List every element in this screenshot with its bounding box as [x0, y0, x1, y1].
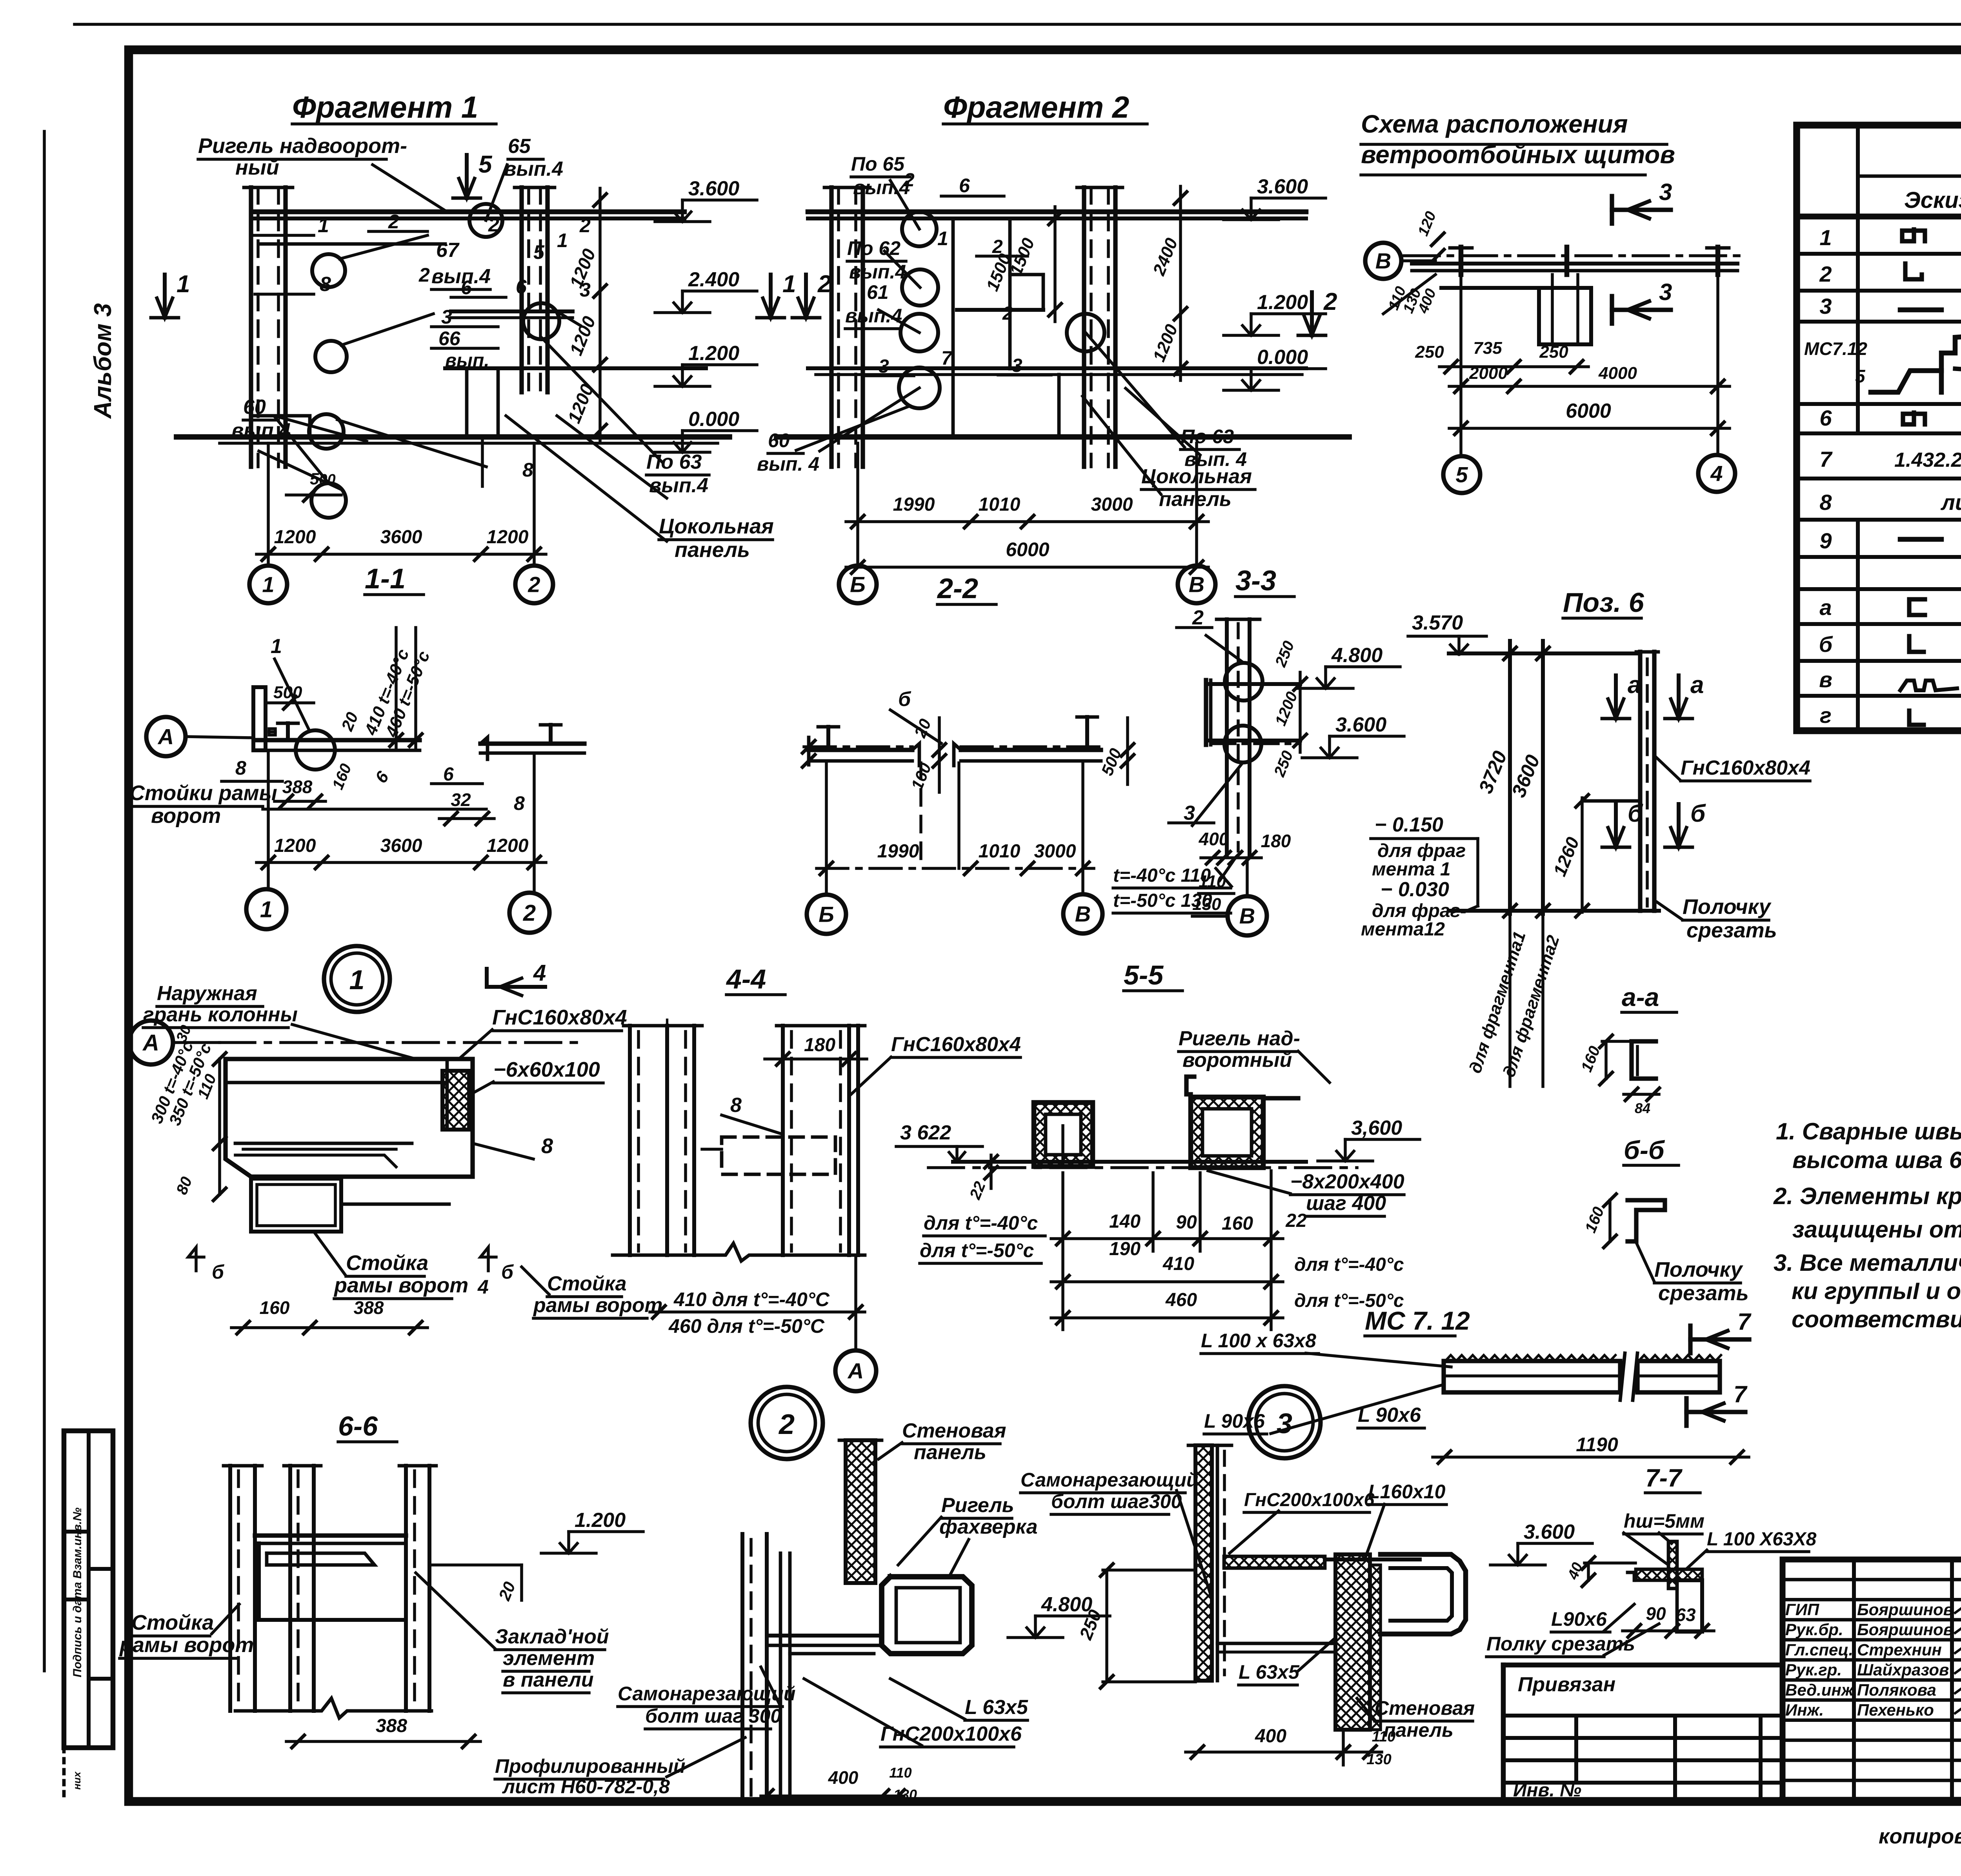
svg-text:Б: Б — [850, 572, 866, 597]
section 2-2 right upstand — [1085, 717, 1089, 750]
fragment 1 panel below — [467, 368, 498, 437]
svg-text:4-4: 4-4 — [726, 964, 766, 994]
svg-text:болт шаг300: болт шаг300 — [1051, 1490, 1182, 1512]
svg-text:Фрагмент 2: Фрагмент 2 — [943, 90, 1129, 124]
svg-text:а: а — [1628, 671, 1641, 699]
svg-text:3.600: 3.600 — [688, 177, 739, 200]
unit 2 horizontal members — [767, 1634, 882, 1638]
svg-text:7: 7 — [941, 347, 953, 369]
svg-text:3: 3 — [1012, 355, 1022, 376]
svg-text:4: 4 — [1710, 461, 1723, 486]
fragment 2 inner post — [951, 218, 955, 437]
svg-text:2.400: 2.400 — [688, 268, 739, 291]
section 4-4 dashed plate — [722, 1137, 835, 1174]
svg-text:1.200: 1.200 — [1257, 291, 1308, 314]
svg-text:Шайхразов: Шайхразов — [1857, 1661, 1949, 1679]
svg-text:1010: 1010 — [979, 494, 1021, 515]
svg-text:3: 3 — [879, 356, 889, 377]
svg-text:для фраг-: для фраг- — [1372, 901, 1466, 921]
scheme section arrows 3 — [1610, 196, 1614, 224]
svg-text:вып. 4: вып. 4 — [757, 453, 819, 475]
fragment 1 grid axis 2 — [533, 443, 536, 566]
fragment 1 callout circles — [312, 254, 345, 287]
fragment 1 right column — [519, 187, 524, 392]
section 6-6 left column — [228, 1466, 232, 1711]
svg-text:МС7.12: МС7.12 — [1804, 338, 1867, 359]
pos.6 dim 1260 — [1581, 798, 1584, 912]
pos.6 channel bar — [1638, 652, 1642, 911]
svg-text:60: 60 — [768, 429, 790, 451]
svg-text:2000: 2000 — [1469, 364, 1508, 383]
svg-text:5: 5 — [1455, 462, 1468, 487]
svg-text:−8х200х400: −8х200х400 — [1290, 1170, 1404, 1193]
svg-text:500: 500 — [310, 469, 336, 488]
scheme dim 250-735-250 — [1439, 365, 1588, 368]
fragment 1 top mid labels — [465, 155, 469, 198]
svg-text:1: 1 — [176, 271, 190, 298]
svg-text:1: 1 — [271, 635, 282, 658]
svg-text:388: 388 — [354, 1297, 384, 1318]
left margin stamp boxes — [64, 1431, 113, 1748]
svg-text:МС 7. 12: МС 7. 12 — [1365, 1306, 1470, 1335]
svg-text:1200: 1200 — [274, 835, 316, 856]
svg-text:в панели: в панели — [503, 1669, 594, 1691]
svg-text:3: 3 — [1659, 279, 1672, 305]
svg-text:8: 8 — [235, 757, 246, 779]
svg-text:Подпись и дата Взам.инв.№: Подпись и дата Взам.инв.№ — [71, 1508, 84, 1678]
fragment 2 right dim chain — [1179, 186, 1182, 380]
svg-text:рамы ворот: рамы ворот — [333, 1274, 468, 1297]
svg-text:60: 60 — [243, 396, 266, 419]
svg-text:400: 400 — [1199, 829, 1229, 849]
svg-text:лист 15 МС 7.12: лист 15 МС 7.12 — [1940, 490, 1961, 515]
svg-text:500: 500 — [273, 683, 302, 702]
svg-text:Полочку: Полочку — [1654, 1258, 1744, 1281]
svg-text:L160х10: L160х10 — [1368, 1481, 1446, 1503]
svg-text:1990: 1990 — [893, 494, 935, 515]
svg-text:90: 90 — [1646, 1603, 1666, 1624]
scheme dim 6000 — [1449, 427, 1730, 430]
sheet edge left — [43, 131, 46, 1671]
svg-text:1200: 1200 — [487, 835, 529, 856]
svg-text:65: 65 — [508, 135, 531, 158]
title block staff table outline — [1783, 1559, 1961, 1800]
svg-text:б-б: б-б — [1624, 1135, 1665, 1165]
svg-text:Стеновая: Стеновая — [902, 1419, 1006, 1442]
element list table horizontal lines — [1858, 175, 1961, 178]
svg-text:б: б — [212, 1261, 225, 1283]
svg-text:1. Сварные швы выполнять элект: 1. Сварные швы выполнять электродами Э-4… — [1776, 1118, 1961, 1145]
svg-text:Полочку: Полочку — [1683, 895, 1772, 919]
svg-text:3-3: 3-3 — [1235, 565, 1276, 597]
unit 3 top flange — [1224, 1556, 1325, 1568]
svg-text:2: 2 — [817, 271, 831, 298]
svg-text:6: 6 — [516, 276, 527, 298]
section 1-1 beam lines — [257, 738, 420, 742]
fragment 2 bottom dims — [846, 520, 1208, 523]
svg-text:110: 110 — [1199, 872, 1226, 891]
svg-text:3600: 3600 — [380, 835, 422, 856]
svg-text:Гл.спец.: Гл.спец. — [1785, 1640, 1853, 1659]
unit 3 vertical dim 250 — [1105, 1570, 1108, 1682]
svg-text:Схема расположения: Схема расположения — [1361, 110, 1628, 138]
svg-text:Ригель: Ригель — [941, 1494, 1014, 1517]
svg-text:2. Элементы крепления профилир: 2. Элементы крепления профилированного н… — [1773, 1183, 1961, 1209]
svg-text:б: б — [501, 1261, 514, 1283]
svg-text:t=-40°с 110: t=-40°с 110 — [1113, 865, 1211, 886]
svg-text:Стойка: Стойка — [346, 1251, 428, 1275]
fragment 2 callout circles — [902, 212, 937, 246]
svg-text:рамы ворот: рамы ворот — [533, 1294, 663, 1317]
fragment 2 left column — [829, 187, 833, 467]
title block staff columns — [1852, 1559, 1856, 1800]
section 2-2 beam right part — [961, 748, 1101, 752]
section 4-4 grid circle A — [854, 1255, 857, 1349]
svg-text:срезать: срезать — [1658, 1281, 1749, 1305]
section 5-5 right hollow square — [1191, 1097, 1263, 1168]
section 7-7 vertical plate — [1668, 1541, 1677, 1589]
section 1-1 callout circle — [296, 730, 335, 770]
svg-text:мента 1: мента 1 — [1372, 859, 1451, 880]
svg-text:180: 180 — [804, 1035, 835, 1055]
svg-text:ГнС160х80х4: ГнС160х80х4 — [891, 1033, 1021, 1056]
svg-text:А: А — [847, 1359, 864, 1383]
svg-text:2: 2 — [388, 211, 399, 233]
svg-text:1.200: 1.200 — [575, 1509, 626, 1532]
svg-text:5: 5 — [1855, 366, 1866, 386]
section 7-7 leader hw — [1624, 1533, 1668, 1565]
unit 1 section b arrows — [188, 1247, 204, 1271]
svg-text:1: 1 — [318, 214, 329, 237]
svg-text:L 100 х 63х8: L 100 х 63х8 — [1201, 1330, 1316, 1352]
svg-text:высота шва 6 мм.: высота шва 6 мм. — [1792, 1147, 1961, 1173]
section 1-1 T column top — [286, 723, 290, 740]
fragment 2 mid beam 790 — [957, 308, 1043, 312]
svg-text:2: 2 — [1192, 606, 1204, 629]
svg-text:7: 7 — [1819, 447, 1833, 471]
scheme dim 2000-4000 — [1449, 385, 1730, 388]
svg-text:Стеновая: Стеновая — [1375, 1697, 1475, 1719]
svg-text:3: 3 — [1277, 1408, 1292, 1439]
svg-text:вып.4: вып.4 — [845, 305, 902, 327]
section 1-1 right piece — [480, 741, 584, 746]
svg-text:8: 8 — [514, 792, 525, 814]
section 2-2 beam left part — [804, 745, 912, 748]
fragment 2 section marks — [769, 275, 773, 318]
svg-text:2: 2 — [1323, 288, 1337, 315]
title block staff rows — [1783, 1578, 1961, 1581]
scheme column 5 — [1459, 247, 1464, 275]
fragment 2 leader lines — [890, 180, 919, 229]
svg-text:По 62: По 62 — [847, 237, 900, 259]
svg-text:6: 6 — [443, 764, 454, 785]
fragment 1 ground line — [176, 434, 729, 440]
svg-text:вып.: вып. — [445, 350, 489, 371]
fragment 2 grid axis V — [1195, 443, 1198, 566]
svg-text:7-7: 7-7 — [1645, 1464, 1683, 1492]
pos.6 bottom line — [1449, 909, 1659, 913]
section 4-4 center dashdot — [666, 1020, 668, 1259]
svg-text:лист Н60-782-0,8: лист Н60-782-0,8 — [502, 1776, 670, 1798]
svg-text:5: 5 — [478, 151, 493, 178]
fragment 1 beam 2.400 line — [451, 309, 573, 313]
pos.6 a-a cut arrows — [1614, 675, 1618, 719]
svg-text:вып.4: вып.4 — [853, 177, 910, 198]
svg-text:элемент: элемент — [503, 1647, 595, 1670]
svg-text:В: В — [1239, 904, 1255, 928]
fragment 2 top beam — [808, 209, 1306, 215]
unit 1 grid circle A — [129, 1021, 173, 1064]
svg-text:Привязан: Привязан — [1518, 1673, 1615, 1696]
section 3-3 callout circles — [1225, 663, 1262, 701]
svg-text:1: 1 — [557, 229, 568, 251]
svg-text:L 63х5: L 63х5 — [965, 1696, 1028, 1719]
scheme grid circle V — [1365, 243, 1401, 279]
svg-text:− 0.030: − 0.030 — [1381, 878, 1449, 901]
svg-text:3.600: 3.600 — [1524, 1521, 1575, 1543]
svg-text:Эскиз: Эскиз — [1904, 187, 1961, 213]
svg-text:735: 735 — [1473, 338, 1502, 358]
svg-text:Альбом 3: Альбом 3 — [89, 303, 116, 419]
svg-text:90: 90 — [1176, 1212, 1197, 1233]
unit 1 main beam outline — [226, 1059, 473, 1177]
section 1-1 left upstand plate — [253, 687, 266, 750]
svg-text:3600: 3600 — [380, 527, 422, 548]
svg-text:По 63: По 63 — [646, 451, 702, 473]
b-b angle shape — [1628, 1200, 1665, 1241]
svg-text:рамы ворот: рамы ворот — [119, 1633, 254, 1657]
svg-text:1200: 1200 — [487, 527, 529, 548]
scheme column mid — [1564, 247, 1570, 275]
MC7.12 break marks — [1620, 1353, 1625, 1400]
scheme grid circle 4 — [1716, 275, 1719, 454]
svg-text:Инв. №: Инв. № — [1513, 1780, 1581, 1801]
svg-text:3. Все металлические конструк: 3. Все металлические конструкции покрыть… — [1774, 1250, 1961, 1276]
svg-text:Пехенько: Пехенько — [1857, 1701, 1934, 1719]
svg-text:4: 4 — [533, 960, 546, 986]
svg-text:Полякова: Полякова — [1857, 1681, 1936, 1699]
svg-text:1190: 1190 — [1576, 1434, 1618, 1456]
svg-text:2-2: 2-2 — [937, 573, 978, 604]
svg-text:2: 2 — [904, 170, 915, 191]
svg-text:6000: 6000 — [1006, 539, 1049, 560]
section 3-3 left plate and angles — [1204, 680, 1208, 745]
unit 3 bottom member lines — [1217, 1642, 1335, 1645]
svg-text:а: а — [1819, 595, 1832, 620]
svg-text:5: 5 — [533, 241, 545, 263]
svg-text:Б: Б — [819, 902, 834, 927]
svg-text:вып.4: вып.4 — [231, 419, 291, 442]
fragment 1 leader lines — [340, 235, 427, 259]
svg-text:болт шаг 300: болт шаг 300 — [645, 1705, 781, 1727]
svg-text:3000: 3000 — [1091, 494, 1133, 515]
svg-text:шаг 400: шаг 400 — [1306, 1192, 1386, 1215]
element list table outer border — [1797, 125, 1961, 731]
fragment 1 grid axis 1 — [267, 443, 270, 566]
svg-text:а: а — [1690, 671, 1704, 699]
section 3-3 grid circle V — [1246, 858, 1249, 896]
svg-text:8: 8 — [522, 459, 533, 481]
svg-text:Наружная: Наружная — [157, 982, 257, 1005]
svg-text:Стрехнин: Стрехнин — [1857, 1640, 1942, 1659]
svg-text:9: 9 — [1819, 528, 1832, 553]
svg-text:250: 250 — [1539, 342, 1568, 362]
section 5-5 left hollow square — [1034, 1103, 1093, 1166]
svg-text:Стойка: Стойка — [131, 1611, 214, 1634]
a-a dim 84 below — [1624, 1093, 1659, 1096]
svg-text:1.432.2-17 вып. 5-2, МС10: 1.432.2-17 вып. 5-2, МС10 — [1894, 449, 1961, 471]
svg-text:По 65: По 65 — [851, 153, 905, 175]
svg-text:Поз. 6: Поз. 6 — [1563, 587, 1644, 618]
svg-text:160: 160 — [1222, 1213, 1253, 1234]
svg-text:б: б — [1628, 800, 1643, 827]
svg-text:6: 6 — [461, 277, 472, 298]
svg-text:в: в — [1819, 667, 1832, 692]
svg-text:3 622: 3 622 — [900, 1121, 951, 1144]
svg-text:6: 6 — [959, 175, 970, 197]
unit 1 axis dash line — [220, 1041, 580, 1044]
MC7.12 serration top — [1445, 1355, 1615, 1361]
svg-text:панель: панель — [914, 1441, 986, 1464]
section 4-4 left column — [628, 1026, 632, 1255]
pos.6 long verticals — [1508, 641, 1512, 914]
pos.6 b-b cut arrows — [1614, 804, 1618, 847]
svg-text:Цокольная: Цокольная — [659, 515, 774, 538]
section 7-7 outline box — [1628, 1572, 1634, 1580]
svg-text:б: б — [1819, 632, 1833, 657]
svg-text:3.600: 3.600 — [1257, 175, 1308, 198]
svg-text:6000: 6000 — [1566, 400, 1611, 422]
svg-text:L 63х5: L 63х5 — [1239, 1661, 1300, 1683]
svg-text:L90х6: L90х6 — [1551, 1608, 1607, 1630]
a-a channel shape — [1632, 1041, 1656, 1079]
fragment 1 top beam — [254, 209, 684, 215]
svg-text:8: 8 — [541, 1134, 553, 1158]
svg-text:7: 7 — [1734, 1381, 1748, 1407]
svg-text:Бояршинов: Бояршинов — [1857, 1620, 1953, 1639]
svg-text:8: 8 — [1819, 490, 1832, 515]
svg-text:7: 7 — [1737, 1308, 1752, 1335]
section 6-6 beam lines — [255, 1533, 406, 1538]
unit 3 big hatched tube rigel — [1381, 1554, 1466, 1634]
svg-text:5-5: 5-5 — [1124, 960, 1164, 990]
svg-text:г: г — [1820, 703, 1832, 728]
svg-text:б: б — [1690, 800, 1706, 827]
svg-text:Фрагмент 1: Фрагмент 1 — [292, 90, 478, 124]
svg-text:110: 110 — [1372, 1729, 1396, 1745]
svg-text:1010: 1010 — [979, 841, 1021, 862]
svg-text:Бояршинов: Бояршинов — [1857, 1600, 1953, 1619]
svg-text:0.000: 0.000 — [1257, 346, 1308, 369]
scheme beam chain line — [1404, 254, 1741, 257]
privyazan box — [1503, 1663, 1783, 1668]
svg-text:1200: 1200 — [274, 527, 316, 548]
svg-text:для t°=-40°с: для t°=-40°с — [1294, 1254, 1404, 1275]
svg-text:3000: 3000 — [1034, 841, 1076, 862]
fragment 1 level 1.200 line — [445, 366, 706, 370]
svg-text:388: 388 — [376, 1716, 407, 1736]
svg-text:Стойки рамы: Стойки рамы — [129, 781, 277, 805]
svg-text:ГнС160х80х4: ГнС160х80х4 — [492, 1006, 627, 1029]
svg-text:4.800: 4.800 — [1331, 644, 1383, 667]
svg-text:копировал Лиур: копировал Лиур — [1879, 1825, 1961, 1848]
svg-text:63: 63 — [1675, 1605, 1696, 1625]
scheme column 4 — [1715, 247, 1721, 275]
svg-text:2: 2 — [579, 215, 591, 237]
svg-text:130: 130 — [1192, 895, 1221, 914]
svg-text:срезать: срезать — [1686, 919, 1777, 942]
section 1-1 bottom dims — [256, 861, 546, 864]
svg-text:соответствии со СНиП 2.03. 11: соответствии со СНиП 2.03. 11-85, прилож… — [1792, 1306, 1961, 1332]
svg-text:160: 160 — [260, 1297, 290, 1318]
section 6-6 inner rectangle — [259, 1543, 406, 1620]
svg-text:400: 400 — [828, 1767, 859, 1788]
svg-text:для t°=-40°с: для t°=-40°с — [924, 1212, 1038, 1234]
svg-text:2: 2 — [418, 264, 430, 286]
section 2-2 left T-column — [826, 727, 830, 750]
svg-text:140: 140 — [1109, 1211, 1141, 1232]
svg-text:2: 2 — [528, 572, 540, 597]
svg-text:6: 6 — [1819, 406, 1832, 430]
svg-text:84: 84 — [1635, 1100, 1650, 1116]
unit 2 callout circle — [751, 1387, 823, 1459]
fragment 2 level 1.200 line — [808, 366, 1306, 370]
svg-text:3: 3 — [1659, 179, 1672, 205]
svg-text:L 100 Х63Х8: L 100 Х63Х8 — [1707, 1529, 1817, 1550]
svg-text:А: А — [157, 724, 174, 749]
unit 1 channel plate right — [442, 1071, 469, 1130]
fragment 2 right column — [1082, 187, 1086, 467]
svg-text:Стойка: Стойка — [547, 1272, 627, 1295]
svg-text:В: В — [1375, 249, 1391, 273]
svg-text:ворот: ворот — [151, 804, 221, 828]
section 2-2 bottom dims — [817, 867, 1094, 870]
title block signatures — [1955, 1606, 1961, 1614]
unit 3 wall hatched column — [1335, 1554, 1370, 1730]
svg-text:фахверка: фахверка — [939, 1516, 1038, 1538]
svg-text:1.200: 1.200 — [688, 342, 739, 365]
svg-text:воротный: воротный — [1182, 1049, 1292, 1072]
unit 2 wall panel hatched — [846, 1440, 875, 1583]
svg-text:защищены от коррозии цинковым: защищены от коррозии цинковым покрытием. — [1792, 1216, 1961, 1243]
svg-text:1-1: 1-1 — [365, 563, 406, 595]
unit 3 callout circle — [1248, 1386, 1321, 1458]
svg-text:1: 1 — [782, 271, 796, 298]
unit 3 wall column hatched — [1195, 1445, 1212, 1681]
fragment 1 base plate — [251, 416, 310, 437]
svg-text:ный: ный — [235, 156, 279, 179]
svg-text:1: 1 — [1819, 225, 1832, 250]
svg-text:66: 66 — [438, 328, 461, 349]
section 2-2 left end ticks — [807, 737, 811, 765]
section 4-4 bottom break line — [613, 1243, 865, 1261]
section 5-5 vertical dim edges — [1061, 1173, 1064, 1330]
svg-text:110: 110 — [889, 1765, 911, 1781]
svg-text:2: 2 — [1002, 303, 1013, 324]
svg-text:180: 180 — [1261, 831, 1291, 851]
svg-text:б: б — [898, 688, 911, 711]
svg-text:Самонарезающий: Самонарезающий — [1021, 1469, 1198, 1491]
svg-text:460: 460 — [1165, 1290, 1197, 1310]
unit 2 left column assembly — [740, 1534, 744, 1801]
unit 1 callout circle — [324, 946, 390, 1012]
fragment 2 grid axis B — [856, 443, 859, 566]
svg-text:250: 250 — [1415, 342, 1444, 362]
svg-text:−6х60х100: −6х60х100 — [493, 1058, 600, 1081]
svg-text:3,600: 3,600 — [1351, 1117, 1402, 1139]
svg-text:А: А — [142, 1030, 159, 1055]
svg-text:2: 2 — [523, 900, 536, 926]
